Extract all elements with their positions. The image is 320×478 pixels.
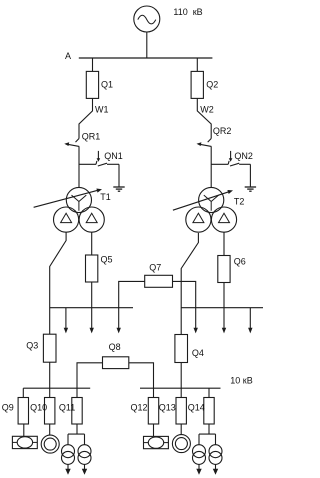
reactor TA2 — [172, 435, 190, 453]
svg-text:Q8: Q8 — [109, 342, 121, 352]
busbar 10kV section 2 — [140, 387, 221, 389]
svg-text:QR1: QR1 — [82, 132, 101, 142]
wire Q8 left — [77, 363, 103, 388]
wire Q10 to TA1 — [49, 424, 51, 435]
svg-text:QR2: QR2 — [213, 126, 232, 136]
wire Q8 right — [129, 363, 154, 388]
transformer pair TM4 — [209, 445, 222, 465]
wire Q11 split — [68, 424, 85, 445]
breaker Q1 — [86, 71, 98, 98]
svg-text:QN2: QN2 — [234, 151, 253, 161]
svg-text:A: A — [65, 51, 71, 61]
ground QN2 — [245, 187, 256, 191]
voltage transformer TV1 — [12, 436, 37, 448]
breaker Q13 — [176, 398, 186, 425]
svg-text:Q5: Q5 — [101, 255, 113, 265]
svg-text:QN1: QN1 — [104, 151, 123, 161]
voltage transformer TV2 — [144, 436, 169, 448]
wire Q5 to feeder bus a — [91, 282, 93, 308]
transformer pair TM2 — [78, 445, 91, 465]
AC source G1 — [134, 6, 160, 32]
breaker Q8 — [103, 357, 129, 369]
svg-text:Q14: Q14 — [188, 403, 205, 413]
earthing switch QN1 — [79, 151, 119, 166]
svg-text:W2: W2 — [200, 105, 214, 115]
svg-text:10 кВ: 10 кВ — [230, 376, 252, 386]
feeder bus a — [50, 307, 133, 309]
feeder arrow TM1 — [65, 464, 70, 474]
wire T2 LV2 to Q6 — [223, 232, 225, 255]
wire bus2 to Q12 — [153, 388, 155, 397]
busbar A 110kV — [79, 57, 213, 59]
wire QR1 to T1 — [78, 146, 80, 188]
wire bus2 to Q14 — [208, 388, 210, 397]
disconnector QR1 — [64, 139, 79, 147]
feeder arrow a2 — [90, 308, 94, 334]
svg-text:Q1: Q1 — [101, 79, 113, 89]
breaker Q9 — [18, 398, 28, 425]
feeder arrow b1 — [194, 308, 198, 334]
breaker Q11 — [72, 398, 82, 425]
transformer T1 — [54, 187, 105, 232]
feeder arrow a3 — [117, 308, 121, 334]
wire T1 LV2 to Q5 — [91, 232, 93, 255]
wire T2 LV1 to Q4 — [181, 233, 198, 335]
feeder arrow TM3 — [196, 464, 201, 474]
breaker Q6 — [218, 256, 230, 283]
wire W1 — [79, 98, 93, 138]
breaker Q14 — [204, 398, 214, 425]
wire Q7 left — [119, 281, 145, 307]
feeder bus b — [181, 307, 263, 309]
wire Q9 to TV1 — [23, 424, 25, 436]
wire Q13 to TA2 — [180, 424, 182, 435]
wire bus to Q2 — [196, 58, 198, 71]
wire bus to Q1 — [92, 58, 94, 71]
tap arrow T1 — [34, 189, 102, 208]
breaker Q3 — [43, 334, 56, 362]
transformer pair TM1 — [62, 445, 75, 465]
svg-text:Q12: Q12 — [131, 403, 148, 413]
wire bus1 to Q11 — [76, 388, 78, 397]
svg-text:T1: T1 — [100, 192, 111, 202]
feeder arrow b3 — [248, 308, 252, 334]
feeder arrow b2 — [222, 308, 226, 334]
wire T1 LV1 to Q3 — [50, 232, 66, 334]
breaker Q7 — [145, 275, 173, 287]
wire QN2 to ground — [249, 164, 251, 187]
svg-text:Q6: Q6 — [234, 256, 246, 266]
feeder arrow TM4 — [213, 464, 218, 474]
wire Q4 to bus section 2 — [180, 363, 182, 389]
breaker Q12 — [148, 398, 158, 425]
busbar 10kV section 1 — [23, 387, 90, 389]
wire bus1 to Q9 — [22, 388, 24, 397]
breaker Q4 — [175, 335, 188, 363]
wire W2 — [197, 98, 211, 138]
svg-text:Q7: Q7 — [149, 262, 161, 272]
reactor TA1 — [41, 435, 59, 453]
svg-text:Q2: Q2 — [206, 79, 218, 89]
ground QN1 — [113, 187, 124, 191]
tap arrow T2 — [173, 190, 233, 210]
wire Q7 right — [173, 281, 196, 307]
wire source to bus — [146, 32, 148, 58]
wire Q14 split — [199, 424, 216, 445]
earthing switch QN2 — [211, 151, 250, 166]
wire Q6 to feeder bus b — [223, 283, 225, 308]
svg-text:Q11: Q11 — [59, 403, 75, 413]
transformer pair TM3 — [193, 445, 206, 465]
breaker Q2 — [191, 71, 203, 98]
feeder arrow TM2 — [82, 464, 87, 474]
wire QR2 to T2 — [210, 146, 212, 188]
svg-text:110 кВ: 110 кВ — [173, 7, 202, 17]
svg-text:T2: T2 — [234, 197, 245, 207]
svg-text:Q4: Q4 — [192, 348, 204, 358]
wire Q3 to bus section 1 — [49, 362, 51, 388]
wire bus2 to Q13 — [180, 388, 182, 397]
wire bus1 to Q10 — [49, 388, 51, 397]
svg-text:Q10: Q10 — [30, 403, 47, 413]
breaker Q10 — [45, 398, 55, 425]
transformer T2 — [186, 187, 237, 232]
breaker Q5 — [86, 255, 98, 282]
svg-text:Q13: Q13 — [159, 403, 176, 413]
disconnector QR2 — [197, 139, 212, 147]
wire Q12 to TV2 — [153, 424, 155, 436]
feeder arrow a1 — [64, 308, 68, 334]
svg-text:Q9: Q9 — [2, 403, 14, 413]
svg-text:W1: W1 — [95, 105, 109, 115]
svg-text:Q3: Q3 — [26, 341, 38, 351]
wire QN1 to ground — [118, 164, 120, 187]
